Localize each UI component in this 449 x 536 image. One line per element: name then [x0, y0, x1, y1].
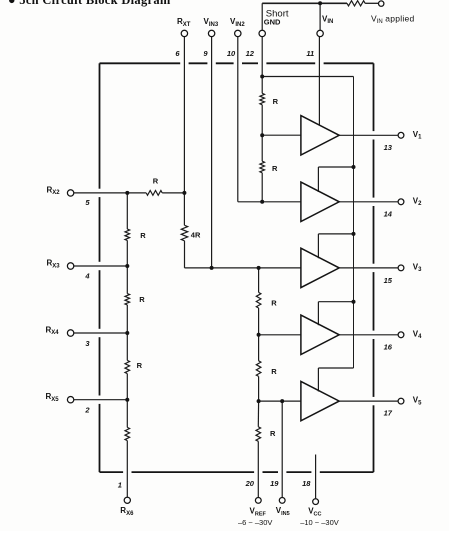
svg-text:R: R: [140, 231, 146, 240]
svg-text:● 5ch Circuit Block Diagram: ● 5ch Circuit Block Diagram: [8, 0, 171, 7]
svg-text:R: R: [273, 97, 279, 106]
svg-text:4R: 4R: [191, 230, 201, 239]
svg-text:–6 ~ –30V: –6 ~ –30V: [238, 518, 272, 527]
svg-text:13: 13: [384, 143, 393, 152]
svg-text:17: 17: [384, 409, 393, 418]
svg-text:16: 16: [384, 342, 393, 351]
svg-text:R: R: [153, 177, 159, 186]
svg-text:2: 2: [84, 405, 90, 414]
svg-text:10: 10: [227, 49, 236, 58]
svg-text:–10 ~ –30V: –10 ~ –30V: [300, 518, 339, 527]
svg-text:R: R: [137, 361, 143, 370]
svg-text:R: R: [139, 295, 145, 304]
svg-text:15: 15: [384, 276, 393, 285]
svg-text:14: 14: [384, 209, 393, 218]
svg-text:20: 20: [245, 479, 255, 488]
svg-text:19: 19: [270, 479, 279, 488]
svg-text:R: R: [272, 164, 278, 173]
svg-text:GND: GND: [264, 18, 281, 27]
svg-text:1: 1: [118, 481, 122, 490]
svg-text:18: 18: [302, 479, 311, 488]
svg-text:4: 4: [84, 271, 90, 280]
svg-text:R: R: [271, 367, 277, 376]
svg-text:R: R: [270, 429, 276, 438]
svg-text:12: 12: [246, 49, 255, 58]
svg-text:11: 11: [306, 49, 314, 58]
svg-text:R: R: [271, 298, 277, 307]
